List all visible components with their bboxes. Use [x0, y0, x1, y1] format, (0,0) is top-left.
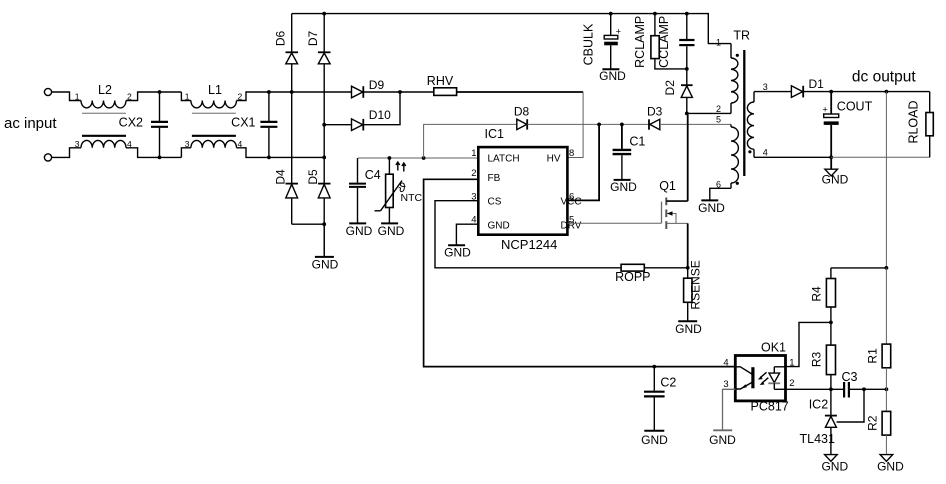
junction R1/R2 [885, 387, 889, 391]
junction D7 top bus [322, 12, 326, 16]
wire D3 anode to TR pin5 [660, 123, 731, 125]
svg-text:3: 3 [185, 139, 190, 149]
svg-text:D4: D4 [274, 169, 288, 185]
resistor RSENSE [684, 260, 703, 309]
svg-text:5: 5 [716, 115, 721, 125]
node feedback line (OK1 pin2 / R3 / C3 / R1-R2) [786, 388, 844, 390]
svg-text:D1: D1 [809, 77, 825, 91]
choke L1 [181, 83, 269, 157]
svg-text:4: 4 [763, 147, 768, 157]
svg-text:TL431: TL431 [800, 432, 835, 446]
svg-text:CBULK: CBULK [582, 23, 596, 65]
junction drain / TR pin2 / D2 [685, 112, 689, 116]
svg-text:D3: D3 [647, 105, 663, 119]
capacitor CBULK [582, 14, 622, 66]
junction CX2 bottom [158, 156, 162, 160]
capacitor CX1 [231, 92, 277, 157]
junction divider/R4 [885, 266, 889, 270]
svg-text:4: 4 [238, 139, 243, 149]
svg-text:2: 2 [238, 92, 243, 102]
svg-text:GND: GND [877, 460, 904, 474]
wire dc output positive rail [803, 91, 930, 93]
capacitor C3 [842, 370, 858, 398]
wire bridge negative return [292, 223, 325, 225]
phototransistor [751, 367, 754, 388]
svg-text:GND: GND [599, 69, 626, 83]
junction R4/R3/opto collector [829, 321, 833, 325]
ground CBULK [599, 45, 626, 83]
svg-text:COUT: COUT [837, 100, 873, 114]
svg-text:6: 6 [716, 179, 721, 189]
junction COUT bottom [829, 155, 833, 159]
svg-text:1: 1 [789, 357, 794, 368]
resistor R1 [866, 268, 891, 389]
capacitor CCLAMP [657, 14, 695, 86]
diode D3 [647, 105, 663, 130]
wire ac line1 to bridge and D9 [269, 91, 352, 93]
wire DRV to gate [567, 222, 661, 224]
svg-text:R3: R3 [810, 352, 824, 368]
svg-text:FB: FB [488, 173, 501, 184]
svg-text:GND: GND [698, 201, 725, 215]
svg-text:C4: C4 [365, 168, 381, 182]
ground TL431 (triangle) [821, 427, 848, 473]
svg-text:D10: D10 [369, 108, 391, 122]
svg-text:L1: L1 [208, 83, 222, 97]
svg-text:5: 5 [569, 215, 574, 226]
svg-text:D2: D2 [663, 80, 677, 96]
wire VCC riser [567, 124, 599, 200]
svg-text:D7: D7 [306, 31, 320, 47]
svg-text:GND: GND [346, 224, 373, 238]
junction CX1 bottom [267, 156, 271, 160]
svg-text:D6: D6 [274, 31, 288, 47]
svg-text:CX2: CX2 [119, 116, 143, 130]
svg-text:IC1: IC1 [485, 127, 505, 141]
junction bridge negative [322, 222, 326, 226]
svg-text:GND: GND [675, 322, 702, 336]
svg-text:dc output: dc output [852, 68, 916, 85]
svg-text:1: 1 [185, 92, 190, 102]
junction source/ROPP/RSENSE [686, 266, 690, 270]
wire Q1 source riser [687, 223, 689, 267]
svg-text:+: + [823, 105, 828, 115]
op-amp/controller IC1 NCP1244 [471, 127, 582, 252]
capacitor C2 [644, 367, 676, 397]
wire ac line1 terminal to L2 pin1 [52, 92, 81, 101]
TR aux phase dot [736, 182, 739, 185]
wire rectified positive top bus [292, 14, 731, 44]
svg-text:RCLAMP: RCLAMP [633, 16, 647, 68]
junction CBULK top bus [609, 12, 613, 16]
svg-text:GND: GND [488, 220, 510, 231]
ground R2 (triangle) [877, 455, 904, 474]
wire ROPP to junction [644, 267, 687, 269]
svg-text:C1: C1 [629, 134, 645, 148]
diode D2 [663, 80, 693, 114]
ground C2 [641, 398, 668, 447]
svg-text:D9: D9 [369, 78, 385, 92]
wire Q1 drain riser [687, 113, 689, 201]
wire RHV to HV pin riser [457, 91, 583, 93]
svg-text:6: 6 [569, 192, 574, 203]
transistor Q1 [659, 179, 688, 229]
wire D8 cathode to D3 / VCC node [527, 123, 649, 125]
svg-text:+: + [616, 27, 621, 37]
capacitor C1 [613, 124, 646, 154]
junction CCLAMP top bus [685, 12, 689, 16]
svg-text:RSENSE: RSENSE [689, 260, 703, 309]
svg-text:3: 3 [723, 379, 728, 390]
transformer TR [687, 29, 768, 200]
svg-text:CX1: CX1 [231, 116, 255, 130]
node LATCH line (C4/NTC to pin1) [358, 157, 478, 159]
wire R4 feed line [831, 267, 887, 269]
ground IC1 pin4 [444, 224, 478, 259]
junction ac line1 / D6-D4 leg [290, 90, 294, 94]
junction COUT top [829, 90, 833, 94]
svg-text:ac input: ac input [4, 115, 57, 132]
svg-text:GND: GND [821, 460, 848, 474]
wire CS pin3 to ROPP [435, 201, 621, 268]
wire dc output return rail [754, 156, 831, 158]
svg-text:NCP1244: NCP1244 [501, 237, 557, 252]
svg-text:GND: GND [444, 246, 471, 260]
wire L2 pin2 to node CX2 top [126, 92, 181, 101]
svg-text:2: 2 [471, 168, 476, 179]
wire D8 anode riser from LATCH node [424, 124, 517, 158]
input terminal top [44, 88, 51, 95]
ground COUT (triangle) [822, 157, 849, 186]
svg-text:D5: D5 [306, 169, 320, 185]
diode D8 [514, 105, 530, 130]
diode D4 [274, 169, 299, 198]
capacitor C4 [349, 158, 381, 187]
TR primary winding pins 1-2 [730, 44, 732, 58]
svg-text:2: 2 [789, 378, 794, 389]
svg-text:R4: R4 [810, 286, 824, 302]
resistor R3 [810, 322, 836, 389]
wire ac line2 to bridge [269, 156, 324, 158]
svg-text:3: 3 [763, 82, 768, 92]
svg-text:3: 3 [75, 139, 80, 149]
svg-text:2: 2 [716, 104, 721, 114]
junction LATCH/D8 riser [422, 156, 426, 160]
svg-text:GND: GND [641, 433, 668, 447]
svg-text:8: 8 [569, 148, 574, 159]
svg-text:GND: GND [709, 433, 736, 447]
svg-text:D8: D8 [514, 105, 530, 119]
svg-text:TR: TR [733, 29, 750, 43]
svg-text:GND: GND [312, 257, 339, 271]
svg-text:ROPP: ROPP [615, 270, 650, 284]
junction D10 anode tap [322, 123, 326, 127]
wire D10 branch [324, 124, 351, 126]
svg-text:GND: GND [822, 172, 849, 186]
diode D9 [352, 78, 385, 98]
capacitor COUT [823, 92, 873, 158]
junction ac line2 / D7-D5 leg [322, 156, 326, 160]
junction NTC top [388, 156, 392, 160]
junction TL431 ref [862, 387, 866, 391]
wire OK1 pin1 to R4/R3 node [786, 322, 831, 366]
wire D10 cathode riser [363, 92, 400, 125]
resistor R2 [866, 389, 891, 454]
wire TR pin3 to D1 [754, 91, 791, 93]
TR secondary phase dot [748, 150, 751, 153]
svg-text:L2: L2 [98, 83, 112, 97]
light arrows [761, 372, 767, 377]
junction CX2 top [158, 90, 162, 94]
TR core [743, 50, 745, 176]
svg-text:GND: GND [610, 180, 637, 194]
thermistor NTC [375, 158, 423, 211]
svg-text:RLOAD: RLOAD [907, 100, 921, 143]
svg-text:OK1: OK1 [761, 341, 786, 355]
svg-text:R2: R2 [866, 415, 880, 431]
svg-text:RHV: RHV [427, 74, 454, 88]
input terminal bottom [44, 154, 51, 161]
shunt regulator IC2 TL431 [800, 389, 865, 446]
junction divider tap top [885, 90, 889, 94]
svg-text:HV: HV [547, 153, 561, 164]
diode D7 [306, 31, 331, 64]
svg-text:CS: CS [488, 197, 502, 208]
resistor RLOAD [907, 92, 934, 158]
ground bridge [312, 224, 339, 271]
wire bridge leg D7/D5 [323, 14, 325, 53]
junction C2 top [652, 365, 656, 369]
wire divider riser from output [885, 92, 887, 268]
svg-text:LATCH: LATCH [488, 153, 520, 164]
svg-text:1: 1 [471, 148, 476, 159]
junction CX1 top [267, 90, 271, 94]
svg-text:C2: C2 [660, 375, 676, 389]
wire FB loop pin2 to optocoupler [424, 179, 736, 366]
ground C4 [346, 188, 373, 238]
wire bridge leg D6/D4 [291, 14, 293, 53]
resistor ROPP [615, 264, 650, 284]
junction RCLAMP top bus [653, 12, 657, 16]
optocoupler OK1 PC817 [723, 341, 794, 414]
diode D5 [306, 169, 331, 198]
wire ac line2 terminal to L2 pin3 [52, 148, 81, 158]
ground OK1 pin3 [709, 389, 736, 447]
diode D10 [352, 108, 392, 130]
ground C1 [610, 155, 637, 194]
junction R3 bottom [829, 387, 833, 391]
svg-text:PC817: PC817 [751, 399, 789, 413]
diode D6 [274, 31, 299, 64]
resistor RCLAMP [633, 14, 687, 69]
svg-text:CCLAMP: CCLAMP [657, 16, 671, 68]
junction C1 top [620, 123, 624, 127]
svg-text:4: 4 [723, 357, 728, 368]
diode D1 [791, 77, 824, 98]
choke L2 [75, 83, 132, 149]
TR secondary winding pins 3-4 [753, 92, 755, 102]
svg-text:IC2: IC2 [809, 397, 829, 411]
resistor R4 [810, 268, 836, 323]
svg-text:GND: GND [378, 224, 405, 238]
svg-text:1: 1 [75, 92, 80, 102]
wire L2 pin4 to node CX2 bottom [126, 148, 181, 158]
junction VCC riser [597, 123, 601, 127]
ground RSENSE [675, 302, 702, 336]
TR aux winding pins 5-6 [730, 124, 732, 127]
wire D9 cathode to RHV [363, 91, 434, 93]
ground TR pin6 [698, 200, 725, 215]
svg-text:1: 1 [716, 38, 721, 48]
svg-text:NTC: NTC [401, 192, 423, 204]
junction D9/D10 [398, 90, 402, 94]
TR primary phase dot [736, 54, 739, 57]
ground NTC [378, 208, 405, 238]
junction RCLAMP/CCLAMP bottom [685, 67, 689, 71]
capacitor CX2 [119, 92, 168, 157]
svg-text:C3: C3 [842, 370, 858, 384]
svg-text:R1: R1 [866, 348, 880, 364]
svg-text:Q1: Q1 [659, 179, 676, 193]
LED [773, 367, 775, 373]
resistor RHV [427, 74, 457, 95]
